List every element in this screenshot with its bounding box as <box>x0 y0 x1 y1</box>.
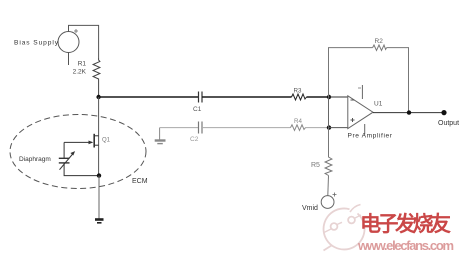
wire capsule to source node <box>64 163 100 176</box>
svg-text:C2: C2 <box>190 136 199 143</box>
svg-text:R3: R3 <box>294 88 302 95</box>
capacitor C1 <box>199 92 203 103</box>
ECM enclosure <box>10 115 146 189</box>
resistor R4 <box>291 125 306 131</box>
wire node to C1 <box>99 96 199 98</box>
svg-text:R5: R5 <box>311 162 320 169</box>
wire R3 to node <box>307 96 330 98</box>
output terminal <box>441 110 446 115</box>
wire R5 to Vmid <box>327 176 330 196</box>
svg-text:Diaphragm: Diaphragm <box>19 156 51 163</box>
svg-text:R4: R4 <box>294 118 302 125</box>
ground (ECM) <box>95 220 104 223</box>
ground (C2 return) <box>155 128 166 144</box>
svg-text:2.2K: 2.2K <box>73 69 87 76</box>
wire between input nodes <box>328 97 330 128</box>
svg-text:Q1: Q1 <box>102 138 111 144</box>
node non-inverting input <box>327 125 331 129</box>
feedback wire right <box>387 48 409 113</box>
svg-text:Vmid: Vmid <box>302 205 318 212</box>
wire node to R5 <box>328 128 330 155</box>
bias supply V1 <box>58 29 79 65</box>
wire C1 to R3 <box>202 96 292 98</box>
wire ground to C2 <box>160 127 199 129</box>
watermark logo elecfans <box>324 205 365 251</box>
wire drain column <box>98 97 100 176</box>
resistor R1 <box>93 58 100 82</box>
wire node to op-amp minus <box>329 96 348 98</box>
wire gate to capsule <box>63 142 65 158</box>
svg-text:ECM: ECM <box>132 178 148 185</box>
resistor R3 <box>292 94 307 100</box>
wire V1 top to R1 <box>69 25 99 58</box>
svg-text:电子发烧友: 电子发烧友 <box>360 212 451 236</box>
wire R1 to node <box>98 82 100 97</box>
svg-text:www.elecfans.com: www.elecfans.com <box>357 238 454 253</box>
wire node to op-amp plus <box>329 127 348 129</box>
node inverting input <box>327 95 331 99</box>
capacitor C2 <box>199 122 203 134</box>
svg-text:C1: C1 <box>193 106 202 113</box>
svg-text:Output: Output <box>438 120 459 127</box>
op-amp U1 <box>348 85 373 135</box>
transistor Q1 <box>64 134 99 148</box>
node source/ground <box>97 173 101 177</box>
node feedback/output <box>407 110 411 114</box>
svg-text:R2: R2 <box>375 38 384 45</box>
op-amp vplus mark <box>358 87 361 89</box>
output wire <box>373 112 444 114</box>
wire R4 to node <box>306 127 330 129</box>
op-amp minus mark <box>351 99 355 101</box>
resistor R2 <box>373 45 387 50</box>
wire C2 to R4 <box>202 127 291 129</box>
capacitor capsule (electret element) <box>59 158 70 163</box>
node junction R1/C1 <box>96 95 100 99</box>
source Vmid <box>321 193 336 209</box>
svg-text:U1: U1 <box>374 100 383 107</box>
svg-text:R1: R1 <box>78 61 87 68</box>
resistor R5 <box>325 155 332 176</box>
op-amp plus mark <box>351 118 355 122</box>
wire to ground <box>98 176 100 219</box>
svg-text:Bias Supply: Bias Supply <box>14 40 59 47</box>
arrow variable marker <box>60 153 74 170</box>
svg-text:Pre Amplifier: Pre Amplifier <box>348 132 393 139</box>
feedback wire <box>329 48 373 97</box>
